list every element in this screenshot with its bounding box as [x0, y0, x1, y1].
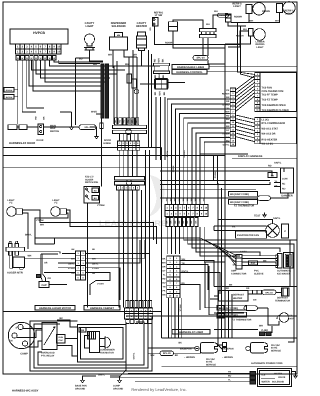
connector refr lt small	[226, 14, 232, 18]
fzd switch box	[84, 187, 100, 204]
svg-text:~ HIDDEN: ~ HIDDEN	[184, 356, 195, 359]
ground loop 1	[30, 316, 152, 371]
wire long y180	[160, 180, 270, 182]
svg-text:PVC: PVC	[251, 262, 256, 265]
wire valve 3	[135, 380, 250, 382]
wire lower light left	[225, 36, 251, 44]
door hinge pin row2	[118, 146, 122, 151]
wire dc right 1	[180, 261, 214, 287]
svg-text:WH: WH	[219, 307, 223, 310]
svg-text:WH: WH	[151, 354, 155, 357]
wire cc down 3	[175, 227, 177, 254]
svg-text:GN/YL: GN/YL	[98, 373, 106, 376]
section line fz liner	[162, 337, 298, 339]
section line cabinet	[3, 311, 162, 313]
wire w8c	[214, 312, 244, 314]
svg-text:BN/YL: BN/YL	[25, 233, 32, 236]
wire rc nested 1	[192, 247, 230, 249]
svg-text:W: W	[44, 57, 46, 60]
wire relay bottom	[57, 346, 78, 357]
svg-text:OR: OR	[226, 100, 230, 103]
svg-text:RD: RD	[154, 75, 157, 79]
wire heater to terminator	[276, 291, 282, 293]
wires into center connector top	[166, 160, 168, 205]
svg-text:DISP: DISP	[50, 127, 56, 130]
center connector row1	[165, 205, 169, 211]
auger motor body	[13, 257, 25, 268]
svg-text:RD: RD	[149, 27, 152, 31]
door hinge pin row	[119, 134, 121, 141]
wire x151 vertical	[151, 54, 153, 147]
svg-text:RD/WH: RD/WH	[183, 150, 186, 158]
svg-text:GN/YL: GN/YL	[273, 217, 281, 220]
power cord plug 2	[251, 343, 268, 354]
splice SPL-20 bottom	[160, 351, 174, 356]
wire bnyl right	[35, 237, 200, 239]
wire HVPCB pin10 right	[59, 60, 100, 64]
svg-text:TN: TN	[228, 370, 231, 373]
inline connector pair top	[169, 22, 178, 27]
svg-text:TERMINATOR: TERMINATOR	[275, 299, 290, 302]
svg-text:HEATER: HEATER	[233, 297, 243, 300]
wire bus y91	[33, 60, 101, 91]
label W8 disp cord 1	[229, 192, 258, 197]
svg-text:COM: COM	[282, 178, 287, 181]
svg-text:LIGHT: LIGHT	[233, 5, 241, 8]
svg-text:GY: GY	[162, 270, 166, 273]
svg-text:GY/BN: GY/BN	[214, 171, 217, 178]
svg-text:TN: TN	[163, 286, 166, 289]
svg-text:WH: WH	[93, 63, 97, 66]
inline comp circle	[134, 89, 138, 93]
wire section lines left	[3, 147, 162, 149]
label evaporator fan	[236, 231, 267, 238]
section label harness-ref liner	[172, 65, 209, 69]
rotated cable labels	[166, 150, 217, 178]
wire gnd arrow feed	[71, 112, 73, 125]
svg-text:FZ THERMISTOR: FZ THERMISTOR	[232, 318, 252, 321]
svg-text:RD/WH: RD/WH	[234, 15, 242, 18]
svg-text:HARNESS-REF LINER: HARNESS-REF LINER	[177, 66, 204, 69]
svg-text:CAP: CAP	[59, 339, 64, 342]
svg-text:SERVICE: SERVICE	[206, 363, 217, 366]
damper connector BK box	[268, 173, 277, 178]
wire long y167	[4, 168, 285, 172]
svg-text:W: W	[35, 57, 37, 60]
hinge2 lower wires	[118, 190, 120, 308]
svg-text:W1-L2 (K): W1-L2 (K)	[262, 142, 274, 145]
door hinge 2 bar1	[115, 177, 145, 180]
svg-text:W4-AC2 DR: W4-AC2 DR	[262, 132, 276, 135]
wire x101 to fzd box	[101, 118, 103, 187]
wire splice to switch	[27, 126, 38, 128]
svg-text:BK: BK	[162, 75, 165, 79]
wire to display bd 1	[238, 23, 255, 75]
damper box	[281, 168, 294, 193]
wire x148 vertical	[148, 50, 150, 147]
svg-text:GY: GY	[226, 129, 230, 132]
label W8 disp cord 2	[229, 200, 258, 205]
svg-text:FZD LT/: FZD LT/	[85, 176, 94, 179]
comp ground	[119, 378, 121, 381]
display board box upper	[260, 73, 297, 112]
ice maker body	[284, 253, 294, 269]
fz liner route box 1	[184, 239, 297, 241]
svg-text:HARNESS-AUGER MOTOR: HARNESS-AUGER MOTOR	[39, 307, 71, 310]
svg-text:WH: WH	[125, 63, 129, 66]
wire rc v1	[213, 226, 215, 231]
wire right components v3	[136, 57, 138, 124]
svg-text:W4/S: W4/S	[91, 111, 97, 114]
wire plug2	[218, 344, 223, 346]
svg-text:SOLENOID: SOLENOID	[272, 380, 284, 383]
wire to display bd 2	[241, 26, 255, 78]
svg-text:BU: BU	[226, 118, 230, 121]
svg-text:OR: OR	[44, 261, 48, 264]
svg-text:WH: WH	[40, 224, 44, 227]
svg-text:W3-AC1 STAT: W3-AC1 STAT	[262, 128, 279, 131]
section line fz door	[3, 147, 162, 149]
solenoid dispenser	[115, 33, 123, 38]
label W8c	[218, 312, 247, 317]
svg-text:BK: BK	[163, 92, 166, 96]
svg-text:TX1:DAMPER CLOSED: TX1:DAMPER CLOSED	[262, 109, 290, 112]
wire HVPCB pin2 down	[22, 60, 36, 112]
wire v x117	[116, 61, 118, 124]
svg-text:WATER: WATER	[274, 372, 282, 375]
evaporator fan motor	[266, 224, 280, 238]
svg-text:60 HZ: 60 HZ	[206, 361, 213, 364]
svg-text:RY2-HEATER: RY2-HEATER	[262, 139, 278, 142]
auger motor top	[6, 247, 25, 251]
capsule W8b	[244, 306, 258, 311]
door hinge bar 2	[113, 130, 147, 133]
double column left	[167, 256, 174, 260]
center connector labels bottom	[166, 218, 169, 227]
svg-text:W: W	[31, 57, 33, 60]
svg-text:DISPLAY HARNESS: DISPLAY HARNESS	[238, 155, 263, 158]
svg-text:VT/WH: VT/WH	[36, 219, 44, 222]
svg-text:WH: WH	[206, 23, 210, 26]
svg-text:HARNESS-WC ASSY: HARNESS-WC ASSY	[12, 390, 39, 393]
valve ground	[292, 372, 296, 374]
door hinge 2 screw	[126, 180, 132, 186]
svg-text:W: W	[21, 57, 23, 60]
svg-text:RUN: RUN	[58, 336, 63, 339]
wires amp in	[200, 238, 236, 256]
wire nest 1	[205, 262, 217, 308]
svg-text:RD: RD	[154, 92, 157, 96]
svg-text:115 VAC: 115 VAC	[206, 358, 215, 361]
svg-text:W8 (DISP CORD): W8 (DISP CORD)	[230, 193, 249, 196]
wire long y184	[160, 182, 270, 185]
cabinet connector labels bottom	[126, 320, 129, 324]
wire cc down 2	[170, 227, 172, 254]
svg-text:FAN MOTOR: FAN MOTOR	[100, 351, 114, 354]
left edge label b	[4, 95, 14, 100]
wire HVPCB pin3 down-right	[27, 60, 44, 108]
splice capsule door	[79, 125, 96, 130]
svg-text:PK: PK	[226, 89, 229, 92]
svg-text:W: W	[40, 57, 42, 60]
svg-text:RD: RD	[226, 287, 230, 290]
overload ptc relay box	[42, 323, 57, 350]
wire conn right	[168, 82, 185, 84]
svg-text:TX3:DAMPER OPEN: TX3:DAMPER OPEN	[262, 104, 286, 107]
hinge lower wires	[118, 150, 120, 176]
svg-text:NC: NC	[282, 183, 286, 186]
wire v x213	[213, 156, 215, 181]
lamp refr light 1	[246, 5, 252, 14]
wire cap right	[49, 284, 67, 286]
svg-text:WH: WH	[28, 255, 32, 258]
svg-text:LT SW: LT SW	[155, 14, 163, 17]
svg-text:M: M	[11, 340, 13, 343]
svg-text:WH: WH	[133, 54, 137, 57]
svg-text:AUGER MTR: AUGER MTR	[7, 272, 23, 275]
evap fan frame	[282, 224, 289, 238]
wire bottom left 1	[149, 347, 196, 349]
svg-text:VT/WH: VT/WH	[97, 204, 105, 207]
defrost terminator body	[282, 288, 290, 296]
svg-text:HARNESS-FZ LINER: HARNESS-FZ LINER	[179, 331, 204, 334]
wire w8b	[258, 307, 269, 309]
wire cavity light down	[90, 50, 104, 61]
svg-text:COMP: COMP	[113, 385, 120, 388]
svg-text:RD/WH: RD/WH	[165, 42, 173, 45]
svg-text:W: W	[17, 57, 19, 60]
wire v x114	[113, 66, 115, 124]
amp cable ribbon	[242, 255, 278, 265]
wire refr lt sw down	[155, 26, 241, 45]
connector J1 HVPCB pin row 1	[16, 44, 21, 49]
svg-text:VT/WH: VT/WH	[179, 304, 182, 311]
wire route a	[228, 290, 230, 338]
svg-text:CAP: CAP	[41, 284, 47, 287]
cabinet connector labels top	[126, 301, 129, 308]
thick wire bar 1	[101, 64, 104, 118]
svg-text:WH: WH	[108, 54, 112, 57]
wire fzvent	[268, 308, 279, 325]
wire splice down 2	[207, 38, 209, 56]
amp connector pins	[236, 255, 242, 259]
svg-text:HARNESS-CONTROL: HARNESS-CONTROL	[176, 71, 203, 74]
wires compressor to relay	[23, 328, 42, 330]
svg-text:ICE: ICE	[262, 373, 266, 376]
hinge ground	[96, 134, 98, 136]
svg-text:GN/YL: GN/YL	[240, 250, 248, 253]
svg-text:OR: OR	[162, 266, 166, 269]
svg-text:HTR: HTR	[290, 317, 295, 320]
section line ref liner	[209, 66, 297, 68]
wires conn2 down	[155, 97, 157, 160]
svg-text:DEFROST: DEFROST	[233, 293, 245, 296]
wire auger pair	[41, 254, 43, 282]
switch ground	[71, 125, 73, 128]
svg-text:RT1-COMPRESSOR: RT1-COMPRESSOR	[262, 122, 286, 125]
svg-text:SLEEVE: SLEEVE	[254, 272, 264, 275]
svg-text:BU: BU	[228, 374, 232, 377]
svg-text:WH: WH	[158, 58, 161, 62]
cabinet connector row1	[125, 308, 130, 314]
wire HVPCB pin5 to bus	[36, 60, 117, 74]
wire cc right 3	[192, 227, 280, 252]
wh small box 2	[217, 314, 224, 319]
lamp cavity light	[85, 34, 95, 46]
center connector row2	[165, 211, 169, 217]
svg-text:RD: RD	[94, 189, 98, 192]
svg-text:SPL-7: SPL-7	[84, 126, 91, 129]
svg-text:GY/BN: GY/BN	[172, 165, 175, 172]
dispenser housing box	[10, 251, 13, 268]
svg-text:COMP: COMP	[20, 353, 28, 356]
svg-text:CONDENSER: CONDENSER	[100, 349, 115, 352]
wire fz lights 2	[67, 210, 157, 244]
wire hinge gnd	[96, 130, 98, 135]
svg-text:EVAPORATOR FAN: EVAPORATOR FAN	[237, 234, 259, 237]
svg-text:TEST: TEST	[254, 215, 261, 218]
svg-text:PTC RELAY: PTC RELAY	[41, 355, 55, 358]
wires auger conn left	[62, 252, 76, 254]
base pan ground	[82, 378, 84, 381]
svg-text:GN/YL: GN/YL	[223, 143, 230, 146]
wire long y189	[160, 188, 256, 190]
svg-text:BK: BK	[175, 354, 179, 357]
svg-text:TX2-FZ TEMP: TX2-FZ TEMP	[262, 99, 278, 102]
wire bus y86	[29, 60, 101, 86]
double column right	[173, 256, 180, 260]
condenser enclosure	[78, 325, 127, 363]
wire cavity heater down	[141, 51, 143, 67]
module HVPCB control board	[10, 29, 68, 44]
wire w4s	[96, 113, 103, 115]
compressor pin M	[12, 333, 17, 338]
svg-text:DOOR: DOOR	[37, 139, 44, 142]
condenser enclosure 2	[81, 328, 124, 360]
svg-text:WH: WH	[214, 10, 218, 13]
svg-text:BASE PAN: BASE PAN	[75, 385, 87, 388]
power cord plug 1	[201, 343, 218, 354]
svg-text:RD: RD	[268, 165, 272, 168]
svg-text:PK: PK	[162, 290, 165, 293]
wire bottom left 2	[149, 352, 161, 354]
lamp fz light 1	[7, 207, 17, 217]
condenser motor ribs	[87, 332, 89, 340]
svg-text:WATER: WATER	[262, 380, 270, 383]
lamp fz light 2	[51, 207, 61, 217]
svg-text:115 VAC: 115 VAC	[271, 344, 280, 347]
lamp lower refrig light	[249, 29, 254, 37]
connector block 2x2	[155, 79, 169, 90]
wire fz light drop	[23, 213, 29, 249]
display board box lower	[260, 118, 297, 144]
compressor pin S	[18, 324, 23, 329]
display harness pin column	[230, 88, 235, 92]
section label harness-fz liner	[172, 330, 210, 335]
wire cc right 5	[200, 227, 240, 256]
wire right components v2	[132, 50, 134, 124]
svg-text:OR: OR	[246, 287, 250, 290]
svg-text:WH: WH	[243, 28, 247, 31]
wire lower light 2	[228, 31, 249, 47]
run cap box	[57, 335, 66, 344]
svg-text:VALVE: VALVE	[278, 376, 286, 379]
svg-text:LIGHT: LIGHT	[52, 199, 60, 202]
svg-text:VT/WH: VT/WH	[97, 282, 104, 285]
ice maker connector	[278, 254, 283, 269]
wire fan left	[214, 225, 266, 227]
svg-text:SPL-20: SPL-20	[196, 57, 205, 60]
section label harness-cabinet	[84, 306, 120, 311]
wire right components v1	[128, 57, 130, 124]
svg-text:BU: BU	[79, 57, 83, 60]
compressor pin C	[22, 341, 27, 346]
wire dc right 4	[180, 285, 200, 311]
svg-text:LIGHT: LIGHT	[7, 199, 15, 202]
wire rc v3	[218, 183, 223, 350]
wire conn down	[228, 22, 246, 26]
svg-text:RD: RD	[226, 114, 230, 117]
connector J1 HVPCB pin row 2	[16, 49, 21, 54]
HVPCB wire color labels	[16, 56, 20, 60]
svg-text:BK: BK	[162, 59, 165, 63]
section divider vertical	[161, 148, 163, 339]
wire x145 down	[145, 150, 147, 308]
svg-text:W: W	[49, 57, 51, 60]
power cord 2 pins	[223, 343, 227, 347]
svg-text:HVPCB: HVPCB	[33, 31, 45, 35]
W5 box	[79, 328, 86, 333]
wire dc right 2	[180, 265, 208, 291]
display board connector column upper	[255, 73, 260, 77]
door hinge 2 bar2	[115, 182, 145, 185]
svg-text:RD/WH: RD/WH	[222, 93, 230, 96]
svg-text:60 HZ: 60 HZ	[271, 347, 278, 350]
svg-text:RD: RD	[92, 248, 96, 251]
fz liner small boxes	[260, 332, 265, 336]
svg-text:CONNECTOR: CONNECTOR	[231, 272, 247, 275]
svg-text:FZ THERMISTOR: FZ THERMISTOR	[234, 204, 254, 207]
wires auger conn right	[86, 252, 151, 254]
wire HVPCB pin4 to bus	[31, 60, 125, 70]
svg-text:WH: WH	[71, 258, 75, 261]
svg-text:BK: BK	[162, 258, 166, 261]
defrost heater chain	[248, 290, 252, 294]
svg-text:BK/WH: BK/WH	[6, 96, 13, 99]
door hinge label row	[115, 118, 118, 125]
door hinge bar 1	[113, 125, 147, 128]
wire cc down x204	[204, 227, 225, 262]
condenser shaft	[100, 339, 106, 347]
thermistor capsule 1	[258, 196, 271, 201]
svg-text:RD/WH: RD/WH	[6, 89, 13, 92]
wire valve 1	[128, 372, 250, 374]
fzd pin boxes	[92, 188, 99, 193]
splice chain left	[8, 125, 17, 130]
wire bu bulb	[75, 58, 77, 125]
inline comp small box 1	[127, 74, 132, 83]
svg-text:ICE MAKER: ICE MAKER	[277, 272, 291, 275]
svg-text:Rendered by LeadVenture, Inc.: Rendered by LeadVenture, Inc.	[131, 387, 186, 392]
svg-text:BU: BU	[94, 197, 98, 200]
svg-text:WH: WH	[259, 324, 263, 327]
svg-text:BK: BK	[271, 174, 275, 177]
damper wires	[274, 182, 281, 184]
wire HVPCB pin7 to bus	[45, 60, 106, 82]
wire rc v4	[221, 188, 223, 338]
svg-text:WH: WH	[219, 315, 223, 318]
svg-text:~ HIDDEN: ~ HIDDEN	[222, 356, 233, 359]
